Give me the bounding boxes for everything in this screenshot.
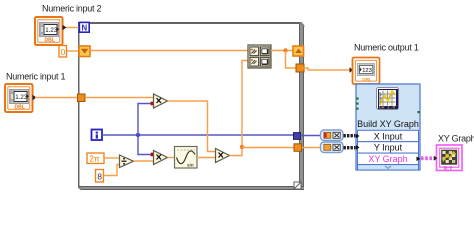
svg-text:8: 8 [97, 171, 102, 181]
svg-text:Numeric output 1: Numeric output 1 [354, 43, 419, 53]
Y Input row [358, 142, 419, 153]
N count terminal [79, 22, 89, 32]
wire: i branch up to multiply 1 [138, 104, 153, 136]
wire: tunnel to multiply 1 [85, 97, 154, 99]
numeric control terminal: Numeric input 1 [5, 84, 33, 112]
wire stub numeric input 1 [33, 95, 37, 100]
XY Graph terminal [434, 145, 462, 172]
wire: sine to M3 [197, 157, 215, 159]
svg-text:Numeric input 1: Numeric input 1 [6, 72, 66, 82]
cluster wire (pink) to XY Graph [421, 156, 437, 160]
wire: M3 out up to bundle node / Y tunnel [230, 61, 249, 156]
dynamic data wire to Y Input [344, 146, 357, 149]
convert to dynamic data node 1 [321, 130, 344, 141]
svg-text:2π: 2π [90, 155, 100, 164]
for loop frame [78, 22, 304, 190]
output arrow [417, 157, 421, 162]
wire: left SR to bundle node [90, 50, 248, 52]
convert to dynamic data node 2 [321, 142, 344, 153]
constant 8 [96, 170, 104, 183]
svg-text:N: N [82, 23, 88, 32]
svg-text:DBL: DBL [15, 105, 25, 111]
X Input row [358, 130, 419, 141]
wire: blue tunnel to convert node [301, 135, 322, 137]
multiply M2 (lower) [154, 151, 168, 165]
wire: bundle out [271, 50, 293, 52]
constant 0 [59, 46, 67, 58]
numeric control terminal: Numeric input 2 [35, 17, 63, 45]
output tunnel (orange) [296, 64, 304, 72]
svg-text:Numeric input 2: Numeric input 2 [42, 4, 102, 14]
Build XY Graph express VI [356, 84, 421, 170]
wire: junction to Y tunnel [242, 147, 294, 149]
svg-text:X·Y: X·Y [444, 166, 454, 172]
svg-text:DBL: DBL [362, 77, 372, 82]
input arrows [356, 134, 360, 139]
indicator nub [350, 67, 354, 72]
coercion dot multiply 2 [151, 153, 155, 157]
svg-text:DBL: DBL [45, 38, 55, 44]
wire stub numeric input 2 [63, 25, 67, 30]
X output tunnel (blue) [294, 133, 301, 140]
Y output tunnel (orange) [294, 144, 302, 152]
left shift register [79, 46, 90, 57]
wire: i branch down to multiply 2 [138, 135, 153, 155]
sine function [175, 147, 198, 169]
loop resize handle [294, 182, 301, 189]
wire: tunnel to numeric output [303, 68, 351, 70]
dynamic data wire to X Input [344, 134, 357, 137]
wire: divide to multiply 2 [134, 160, 154, 162]
input tunnel (orange) [78, 94, 86, 102]
svg-text:sin: sin [187, 163, 194, 168]
divide node [120, 155, 134, 168]
junction on M3 wire [240, 145, 244, 149]
green anchor marks [357, 98, 359, 100]
constant 2pi [87, 153, 104, 164]
coercion dot multiply 1 [151, 102, 155, 106]
multiply M3 [216, 149, 230, 163]
wire: i across loop (blue) [102, 134, 294, 136]
svg-text:X Input: X Input [374, 131, 403, 141]
junction on i wire [136, 133, 140, 137]
svg-text:Build XY Graph: Build XY Graph [357, 119, 419, 129]
wire: M2 to sine [168, 157, 175, 159]
right shift register [293, 46, 304, 56]
svg-text:123: 123 [362, 68, 372, 74]
loop corner bevels [301, 22, 304, 26]
chevron row [358, 165, 419, 170]
svg-text:0: 0 [61, 47, 66, 57]
wire: numeric input 1 to loop tunnel [35, 97, 78, 99]
wire: 8 to divide [104, 165, 120, 176]
svg-text:1.23: 1.23 [45, 27, 58, 34]
XY Graph row [358, 153, 419, 165]
wire: junction down to output tunnel [286, 51, 297, 69]
wire: orange tunnel to convert node [302, 147, 322, 149]
bundle node (2x2 icon grid) [248, 45, 271, 68]
iteration terminal i [92, 130, 103, 141]
wire: M1 out to M3 top [168, 101, 216, 152]
wire: numeric input 2 to N [66, 27, 79, 29]
wire: 0 to left shift register [67, 50, 79, 52]
svg-text:XY Graph: XY Graph [368, 154, 407, 164]
multiply M1 (upper) [154, 94, 168, 108]
junction on bundle out [283, 48, 287, 52]
svg-text:GR 1.0: GR 1.0 [379, 105, 396, 111]
svg-text:1.23: 1.23 [15, 94, 28, 101]
express VI icon [377, 88, 399, 111]
svg-text:XY Graph: XY Graph [438, 134, 474, 144]
wire: 2pi to divide [104, 157, 119, 159]
numeric indicator terminal: Numeric output 1 [353, 58, 380, 85]
svg-text:Y Input: Y Input [374, 143, 403, 153]
